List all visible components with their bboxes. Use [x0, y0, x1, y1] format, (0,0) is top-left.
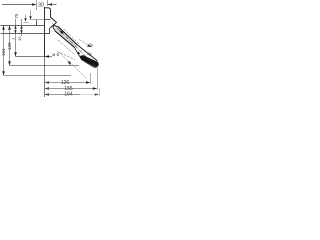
dashed flat line lower — [57, 52, 75, 60]
right extension x97.5 — [97, 68, 99, 91]
head lower-left edge — [75, 48, 80, 57]
svg-text:128: 128 — [7, 42, 12, 50]
holder body outline — [45, 8, 57, 28]
dim 126 right arrow — [86, 81, 91, 83]
hole arrow — [45, 55, 50, 57]
vdim x15.5 down arrow — [14, 30, 16, 33]
axis arrow at cap — [59, 30, 64, 34]
vdim x3.5 top arrow — [2, 26, 5, 30]
bottom extension x44.5 — [44, 57, 46, 97]
pivot extension line — [30, 19, 45, 21]
svg-text:15: 15 — [17, 36, 22, 41]
right extension x90.5 — [90, 73, 92, 84]
holder pivot line — [45, 19, 51, 21]
small arrow x30.5 head — [29, 16, 31, 19]
dim 164 line right faint — [80, 94, 99, 96]
svg-text:164: 164 — [1, 48, 6, 56]
holder bottom edge — [45, 33, 50, 35]
vdim x15.5 bottom arrow — [14, 52, 17, 56]
vdim x15.5 line — [15, 19, 17, 57]
hline y65.5 — [10, 65, 80, 67]
vdim x9.5 bottom arrow — [8, 61, 11, 65]
dim 155 line — [47, 88, 95, 90]
right extension x99.5 — [99, 88, 101, 96]
dim 30 right extension line — [47, 0, 49, 6]
dim 164 right arrow — [95, 93, 100, 95]
hline y75.5 — [4, 75, 72, 77]
head face dark band — [80, 55, 99, 67]
svg-text:ø 6: ø 6 — [52, 52, 59, 58]
small arrow mid — [77, 52, 81, 55]
dashed line below handle — [58, 40, 75, 55]
dim 30 leader line right — [48, 4, 57, 6]
dim 126 line — [47, 82, 89, 84]
dim 164 left arrow — [45, 93, 50, 95]
dim 126 left arrow — [45, 81, 50, 83]
handle interior shade — [55, 26, 78, 48]
bracket segment x36.5 — [36, 20, 38, 26]
handle upper edge — [58, 26, 78, 45]
small arrow x25.5 head — [24, 18, 26, 21]
chain second line — [1, 33, 45, 35]
dashed dim head width — [79, 40, 90, 47]
chain base line — [1, 25, 45, 27]
dim 155 right arrow — [93, 87, 98, 89]
wall line — [44, 7, 46, 57]
holder right lower edge — [49, 28, 51, 34]
hline y56.5 — [16, 56, 53, 58]
dim 30 left arrow — [32, 3, 37, 5]
small extension y22 — [24, 22, 29, 24]
vdim x21.5 line — [21, 19, 23, 36]
vdim x21.5 up arrow — [20, 26, 22, 29]
dim 30 leader line left — [2, 4, 36, 6]
vdim x3.5 line — [3, 26, 5, 76]
small arrow x25.5 line — [25, 15, 27, 19]
dim 155 left arrow — [45, 87, 50, 89]
vdim x21.5 down arrow — [20, 30, 22, 33]
vdim x9.5 top arrow — [8, 26, 11, 30]
svg-text:164: 164 — [64, 92, 73, 98]
handle end cap — [52, 25, 58, 30]
steep dashed extension — [59, 52, 87, 79]
small arrow x30.5 line — [30, 10, 32, 17]
dim 164 line left — [47, 94, 80, 96]
vdim x15.5 up arrow — [14, 26, 16, 29]
steep line arrow — [68, 62, 71, 66]
head top edge — [78, 45, 98, 61]
head bottom outline — [81, 59, 99, 67]
vdim x3.5 bottom arrow — [2, 71, 5, 75]
svg-text:30: 30 — [38, 3, 44, 9]
centerline dash-dot — [53, 24, 98, 68]
dim 30 right arrow — [48, 3, 53, 5]
head width dim arrow — [87, 44, 92, 47]
svg-text:75: 75 — [14, 13, 19, 19]
handle lower edge — [55, 31, 75, 48]
dashed line above handle — [64, 29, 80, 45]
dim 30 left extension line — [36, 0, 38, 10]
vdim x9.5 line — [9, 26, 11, 66]
